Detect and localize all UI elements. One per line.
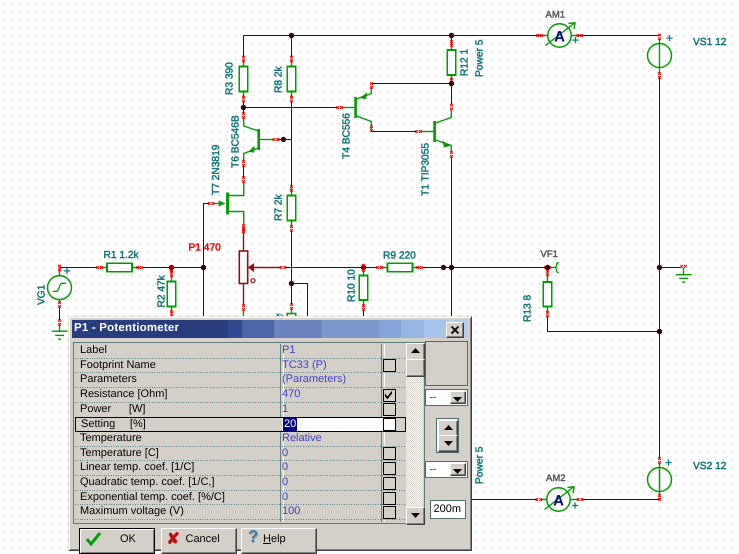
node R12 top xyxy=(449,33,454,38)
wire node to right ground xyxy=(660,267,682,269)
node T6 base xyxy=(281,137,286,142)
svg-text:R13 8: R13 8 xyxy=(523,294,534,322)
svg-text:A: A xyxy=(553,493,564,510)
pin marks R2 xyxy=(170,271,173,277)
svg-text:T6 BC546B: T6 BC546B xyxy=(231,115,242,168)
transistor T7 JFET xyxy=(213,181,244,226)
wire T4 emitter rail xyxy=(372,83,452,85)
wire AM2 left behind dialog xyxy=(470,499,538,501)
ground below VG1 xyxy=(52,325,68,340)
plus sign VG1 xyxy=(64,268,70,274)
wire VS1 to node row xyxy=(659,78,661,268)
resistor R7 xyxy=(287,188,296,228)
wire top supply rail xyxy=(244,35,660,37)
svg-text:R10 10: R10 10 xyxy=(347,269,358,302)
pin marks VF1 xyxy=(544,266,550,269)
pin marks T1 xyxy=(415,130,421,133)
pin marks R9 xyxy=(376,266,382,269)
plus sign VS1 xyxy=(666,35,672,41)
wire T7 gate to node A xyxy=(204,204,210,268)
wire T1 emitter down xyxy=(451,157,453,319)
plus sign VS2 xyxy=(665,460,671,466)
svg-text:R7 2k: R7 2k xyxy=(274,193,285,221)
wire R8 bottom to R7 top xyxy=(291,101,293,187)
property dialog P1 xyxy=(68,316,472,551)
resistor R12 xyxy=(447,43,456,83)
pin marks R10 xyxy=(362,265,365,271)
ammeter AM1 xyxy=(541,23,578,47)
pin marks on nodes xyxy=(362,264,365,270)
label fragment behind dialog xyxy=(277,314,284,317)
svg-text:Power 5: Power 5 xyxy=(475,39,486,77)
ammeter AM2 xyxy=(540,487,579,511)
pin marks ground R7 branch xyxy=(290,303,293,309)
wire R12 top lead xyxy=(451,36,453,42)
wire T1 emitter node to VF1 xyxy=(452,267,546,269)
svg-text:AM1: AM1 xyxy=(546,10,566,21)
wire R10 bottom xyxy=(363,310,365,319)
plus sign AM2 xyxy=(572,502,578,508)
svg-text:VG1: VG1 xyxy=(37,284,48,305)
node B R7 bottom xyxy=(289,281,294,286)
pin marks T7 xyxy=(242,176,245,182)
source VS2 xyxy=(648,462,672,497)
transistor T1 xyxy=(420,110,452,153)
node dots xyxy=(169,33,662,334)
resistor R10 xyxy=(359,268,368,308)
resistor R1 xyxy=(100,263,141,272)
pin marks P1 xyxy=(242,227,245,233)
resistor R3 xyxy=(239,59,248,99)
pin marks AM1 xyxy=(536,34,542,37)
svg-text:T4 BC556: T4 BC556 xyxy=(342,113,353,159)
pin marks R1 xyxy=(96,266,102,269)
transistor T4 xyxy=(341,87,372,129)
wire R3 top lead xyxy=(243,36,245,58)
pin marks R3 xyxy=(242,56,245,62)
pin marks R13 xyxy=(546,270,549,276)
node R10 top xyxy=(361,265,366,270)
wire R8 top lead xyxy=(291,36,293,58)
svg-text:T1 TIP3055: T1 TIP3055 xyxy=(421,143,432,196)
wire node B to ground pin xyxy=(291,284,293,305)
svg-text:VS1 12: VS1 12 xyxy=(693,37,727,48)
wire R3 bottom to node xyxy=(243,101,245,108)
pin marks AM2 xyxy=(536,498,542,501)
pin marks T4 xyxy=(336,106,342,109)
svg-text:P1 470: P1 470 xyxy=(189,243,222,254)
svg-text:R1 1.2k: R1 1.2k xyxy=(104,250,140,261)
wire R9 to T1 emitter node xyxy=(423,267,452,269)
transistor T6 xyxy=(244,117,274,162)
svg-text:R3 390: R3 390 xyxy=(225,62,236,95)
svg-text:A: A xyxy=(554,29,565,46)
svg-text:Power 5: Power 5 xyxy=(475,446,486,484)
node R9 right xyxy=(441,265,446,270)
wire T6 base to R8 branch xyxy=(277,139,292,141)
pin marks T6 xyxy=(273,138,279,141)
generator VG1 xyxy=(48,269,72,304)
wire VS1 node to VS2 xyxy=(659,268,661,460)
pin marks R7 xyxy=(290,185,293,191)
node R8 top xyxy=(289,33,294,38)
node VS rail upper xyxy=(657,265,662,270)
pin marks R12 xyxy=(450,40,453,46)
plus sign AM1 xyxy=(572,37,578,43)
potentiometer P1 xyxy=(239,230,281,305)
svg-text:VF1: VF1 xyxy=(541,249,558,260)
wire R1 to node A xyxy=(143,267,204,269)
resistor R13 xyxy=(543,269,552,315)
wire node to T4 base xyxy=(244,107,339,109)
ground right xyxy=(676,268,692,282)
wire node to T6 collector xyxy=(243,108,245,114)
svg-text:R12 1: R12 1 xyxy=(460,48,471,76)
wire R13 bottom elbow xyxy=(548,317,660,332)
node R12 bottom xyxy=(449,81,454,86)
pin marks VG1 xyxy=(58,265,61,271)
resistor R9 xyxy=(380,263,421,272)
wire R7 bottom to node B xyxy=(291,231,293,284)
wire T6 emitter to T7 drain xyxy=(243,166,245,178)
wire VG1 bottom to ground xyxy=(59,307,61,321)
svg-text:VS2 12: VS2 12 xyxy=(693,461,727,472)
wire VS2 bottom to AM2 xyxy=(582,498,660,500)
wire P1 wiper to R10 node xyxy=(285,267,364,269)
svg-text:T7 2N3819: T7 2N3819 xyxy=(211,144,222,195)
resistor R2 xyxy=(167,269,176,314)
pin marks VS1 xyxy=(658,34,661,40)
svg-text:AM2: AM2 xyxy=(546,473,566,484)
pin marks VS2 xyxy=(658,457,661,463)
node T1 emitter column xyxy=(449,265,454,270)
voltage pin VF1 xyxy=(549,262,559,272)
source VS1 xyxy=(648,38,672,73)
svg-text:R9 220: R9 220 xyxy=(383,251,416,262)
pin marks R8 xyxy=(290,56,293,62)
pin marks ground right xyxy=(680,265,686,268)
node A gate branch xyxy=(201,265,206,270)
wire T4 collector to T1 base xyxy=(372,130,418,132)
wire R12 node to T1 collector xyxy=(451,84,453,105)
svg-text:R2 47k: R2 47k xyxy=(157,274,168,307)
pin marks ground VG1 xyxy=(58,319,61,325)
wire node A down behind dialog xyxy=(203,268,205,319)
node R2 top xyxy=(169,265,174,270)
node R13 return xyxy=(657,329,662,334)
ground below P1 xyxy=(243,310,245,319)
wire VG1 to R1 xyxy=(60,267,98,269)
node VF1 xyxy=(545,265,550,270)
node R3 bottom xyxy=(241,105,246,110)
svg-text:R8 2k: R8 2k xyxy=(274,65,285,93)
resistor behind dialog below R7 branch xyxy=(287,309,296,324)
wire node B elbow down xyxy=(292,284,308,319)
resistor R8 xyxy=(287,59,296,99)
wire R10 node to R9 xyxy=(364,267,378,269)
